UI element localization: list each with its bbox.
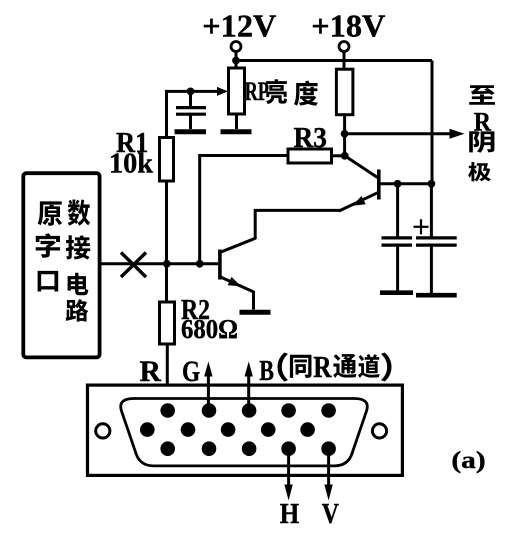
resistor R3	[288, 149, 332, 163]
transistor Q1 base bar	[218, 250, 222, 280]
ground RP	[221, 129, 252, 134]
break mark X stroke 1	[121, 253, 146, 278]
junction output tap	[341, 130, 349, 138]
wire R1 top to RP wiper	[167, 91, 222, 137]
arrowhead Q1 emitter (NPN)	[228, 277, 241, 286]
text yin (cathode)	[469, 131, 494, 153]
terminal +18V	[339, 42, 349, 52]
wire RP bottom	[235, 114, 238, 129]
svg-text:10k: 10k	[109, 147, 153, 179]
wire base node to R2	[165, 264, 168, 302]
wire R2 to pin R	[166, 344, 169, 404]
wire load resistor to collector	[343, 115, 346, 156]
connector pins 1-15	[140, 403, 336, 456]
wire C2 bottom stem	[396, 245, 399, 290]
svg-text:+18V: +18V	[311, 9, 385, 44]
break mark X stroke 2	[121, 253, 146, 278]
connector DB15 shell	[88, 385, 403, 475]
wire Q1 emitter diag	[221, 277, 254, 292]
wire Q2 emitter diag	[339, 192, 379, 211]
capacitor C1 plate bottom	[176, 113, 206, 116]
wire G arrow	[207, 367, 210, 404]
capacitor C2 plate bottom	[382, 244, 413, 247]
block original digital interface circuit	[23, 173, 99, 357]
paren open	[277, 353, 288, 382]
capacitor C3 polarity plus h	[414, 226, 429, 228]
wire C2 stem	[396, 184, 399, 237]
svg-text:+12V: +12V	[202, 9, 276, 44]
text dian	[68, 273, 89, 296]
ground C3	[416, 293, 457, 298]
wire Q1 collector diag	[221, 238, 256, 252]
text tong (channel)	[333, 354, 356, 378]
wire H	[287, 449, 290, 490]
svg-text:B: B	[259, 354, 274, 387]
wire +12V rail drop to Q2 base	[431, 61, 434, 184]
svg-text:G: G	[182, 354, 200, 387]
wire +12V stem	[235, 52, 238, 70]
wire C1 bottom stem	[189, 114, 192, 129]
wire Q1 collector up to Q2 emitter	[255, 210, 341, 239]
junction Q2 collector node	[341, 152, 349, 160]
wire Q2 base lead	[380, 182, 431, 185]
capacitor C3 plate top	[416, 236, 457, 239]
wire B arrow	[247, 367, 250, 404]
text jie	[66, 235, 90, 259]
ground C2	[380, 290, 413, 295]
capacitor C3 plate bottom	[416, 244, 457, 247]
label du (brightness)	[294, 81, 318, 106]
wire +12V rail	[236, 59, 432, 62]
text lu	[66, 299, 89, 322]
wire C3 bottom stem	[430, 245, 433, 293]
text zi	[36, 233, 60, 257]
label liang (brightness)	[266, 79, 287, 104]
ground Q1 emitter	[240, 310, 271, 315]
wire input	[100, 262, 219, 265]
svg-text:R: R	[313, 351, 332, 385]
ground C1	[175, 129, 207, 134]
text kou	[38, 271, 59, 292]
junction feedback tap	[196, 260, 204, 268]
svg-text:(a): (a)	[451, 447, 485, 474]
capacitor C3 polarity plus v	[420, 219, 422, 234]
text tong (same)	[290, 355, 312, 378]
arrowhead G up	[204, 362, 212, 377]
junction C1 node	[187, 88, 195, 96]
junction Q2 base / C2	[394, 180, 402, 188]
connector mounting hole right	[372, 424, 386, 438]
connector mounting hole left	[96, 424, 110, 438]
arrowhead H down	[284, 485, 292, 501]
wire C3 stem	[430, 184, 433, 237]
wire C1 top stem	[189, 91, 192, 106]
wire feedback up	[200, 156, 288, 264]
terminal +12V	[231, 42, 241, 52]
text zhi (to)	[469, 85, 495, 104]
junction +12V rail	[232, 57, 240, 65]
svg-text:RP: RP	[245, 77, 270, 106]
arrowhead B up	[245, 362, 253, 377]
junction Q2 base / C3	[428, 180, 436, 188]
svg-text:V: V	[322, 498, 339, 529]
capacitor C2 plate top	[382, 236, 413, 239]
wire Q1 emitter down	[252, 291, 255, 310]
arrowhead RP wiper	[217, 87, 228, 96]
paren close	[381, 353, 392, 382]
svg-text:H: H	[280, 498, 300, 530]
wire output	[345, 132, 455, 135]
svg-text:R: R	[140, 355, 162, 388]
arrowhead V down	[324, 485, 332, 501]
wire Q2 collector diag	[345, 156, 378, 178]
connector DB15 D-shape insert	[121, 399, 368, 466]
svg-text:680Ω: 680Ω	[181, 314, 238, 344]
resistor R2	[160, 302, 175, 344]
text yuan	[38, 201, 62, 225]
wire R1 to base node	[165, 181, 168, 264]
resistor load (collector)	[336, 69, 353, 115]
wire R3 to collector node	[332, 154, 345, 157]
text dao (channel)	[358, 354, 380, 378]
capacitor C1 plate top	[176, 106, 206, 109]
wire V	[327, 449, 330, 490]
text shu	[68, 199, 91, 225]
resistor R1	[160, 138, 174, 182]
arrowhead Q2 emitter (NPN)	[353, 196, 366, 206]
arrowhead output to R cathode	[450, 129, 465, 139]
wire +18V stem	[343, 52, 346, 70]
text ji (cathode)	[468, 162, 491, 181]
potentiometer RP	[229, 68, 245, 114]
junction base node	[163, 260, 171, 268]
transistor Q2 base bar	[377, 170, 381, 200]
